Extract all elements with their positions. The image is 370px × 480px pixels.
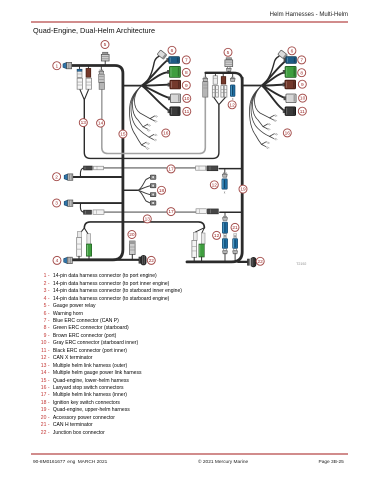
wire: relay stem (upper)	[228, 71, 230, 73]
callout 6	[168, 46, 176, 54]
lanyard fork 1 (16 upper)	[270, 115, 278, 122]
B label block col1	[224, 234, 227, 238]
wire: lower-helm bottom bus to junction box	[112, 259, 140, 261]
callout 11	[183, 107, 191, 115]
bottom col1 claw bottom	[223, 249, 228, 254]
svg-text:6: 6	[171, 48, 174, 54]
wire: quad-engine lower-helm harness trunk (15)	[71, 66, 123, 260]
wire: stem brown connector	[87, 66, 89, 69]
green link body (upper bottom)	[199, 244, 204, 257]
callout 2	[53, 173, 61, 181]
wire: multiple helm link harness inner (17) row 1	[104, 167, 195, 169]
terminator claw (upper col4)	[230, 77, 235, 82]
callout 8	[298, 69, 306, 77]
svg-text:14: 14	[98, 121, 104, 127]
inner link row1 left white connector	[94, 166, 104, 170]
svg-text:19: 19	[240, 187, 246, 193]
wire: stem col1 upper bus	[204, 73, 206, 78]
white link pair connector B (lower)	[86, 78, 92, 89]
H label block col2	[234, 234, 237, 238]
svg-text:21: 21	[232, 225, 238, 231]
mating CAN connector (bottom col1)	[222, 239, 227, 249]
callout 20	[128, 231, 136, 239]
gray gauge connector under claw (lower)	[99, 74, 105, 82]
wire: ignition key fan lead 1	[138, 177, 150, 190]
header rule	[31, 21, 348, 22]
warning horn connector (6 upper)	[278, 50, 288, 59]
callout 5	[101, 41, 109, 49]
wire: lower hub to blue ERC (7)	[142, 61, 167, 86]
wire: connector 2 to trunk	[72, 176, 123, 178]
svg-text:13: 13	[81, 120, 87, 126]
wire: pigtail from connector-2 wire to inner link row 1	[80, 168, 83, 177]
callout 14	[97, 119, 105, 127]
svg-text:7: 7	[185, 58, 188, 64]
wire: lower hub to black ERC (11)	[142, 86, 170, 112]
wire: stem claw connector	[100, 66, 102, 71]
callout 17	[167, 208, 175, 216]
callout 9	[182, 81, 190, 89]
brown accessory connector	[86, 68, 91, 77]
svg-text:x: x	[224, 190, 226, 194]
warning horn connector (6 lower)	[157, 50, 167, 59]
svg-text:4: 4	[56, 258, 59, 264]
gray ERC connector (10 lower, starboard inner)	[168, 94, 180, 103]
wire: lower lanyard stop switch lead 2	[133, 86, 144, 127]
footer texts	[33, 460, 65, 465]
ignition key switch connector 4 (18)	[150, 201, 156, 205]
wire: upper hub to warning horn (6)	[262, 56, 279, 85]
wire: upper-helm gauge bus	[206, 73, 243, 81]
svg-text:12: 12	[214, 233, 220, 239]
callout 15	[119, 130, 127, 138]
CAN X terminator (12, bottom)	[222, 222, 227, 233]
callout 7	[182, 56, 190, 64]
wire: stem to mid terminator	[224, 169, 226, 174]
svg-text:12: 12	[212, 182, 218, 188]
CAN H terminator (21)	[233, 239, 238, 249]
brown ERC connector (9 lower, port)	[168, 80, 181, 89]
footer rule	[31, 453, 348, 454]
ignition key switch connector 3 (18)	[150, 193, 156, 197]
gauge power relay (lower)	[101, 52, 109, 61]
inner link row2 right dark connector	[207, 209, 218, 214]
white striped connector (upper col2)	[213, 76, 217, 84]
14-pin data harness connector 3 (to starboard inner engine)	[64, 200, 73, 206]
legend	[0, 0, 370, 1]
callout 6	[288, 47, 296, 55]
callout 10	[183, 94, 191, 102]
wire: multiple helm link harness outer (13), helm bus to upper bus	[84, 100, 219, 159]
white link pair D2 (upper)	[224, 86, 227, 98]
white link pair D1 (upper)	[221, 86, 224, 98]
wire: lower lanyard stop switch lead 1	[135, 86, 151, 119]
ignition key switch connector 1 (18)	[150, 175, 156, 179]
wire: multiple helm link harness inner (17) row 2	[105, 211, 196, 213]
gauge power relay (upper)	[225, 58, 233, 67]
lanyard fork 1 (16 lower)	[150, 115, 158, 122]
wire: upper lanyard stop switch lead 2	[253, 86, 264, 127]
wire: 13 bottom right fork stems	[195, 228, 204, 233]
bottom col2 claw	[233, 249, 238, 254]
svg-text:8: 8	[185, 70, 188, 76]
svg-text:22: 22	[258, 259, 264, 265]
gray gauge-link connector (upper, feeds 14)	[203, 82, 208, 98]
svg-text:7: 7	[300, 58, 303, 64]
wire: upper lanyard stop switch lead 4	[250, 86, 262, 145]
gauge link claw (upper col1)	[203, 77, 208, 82]
wire: accessory stem	[131, 255, 133, 260]
wire: lower hub to warning horn (6)	[142, 56, 159, 85]
svg-text:10: 10	[300, 96, 306, 102]
wire: stems lower pair to bus	[79, 256, 89, 260]
svg-text:16: 16	[163, 131, 169, 137]
inner link row2 left white connector	[93, 210, 104, 214]
svg-text:13: 13	[145, 217, 151, 223]
inner link row1 right dark connector	[207, 166, 218, 171]
callout 16	[283, 129, 291, 137]
mini connector above green body (lower)	[87, 234, 91, 244]
svg-text:22: 22	[149, 258, 155, 264]
svg-text:T2192: T2192	[296, 262, 306, 266]
accessory power connector (20)	[130, 241, 136, 255]
svg-text:17: 17	[168, 209, 174, 215]
blue ERC connector (7 upper, CAN P)	[284, 57, 297, 64]
svg-text:3: 3	[55, 201, 58, 207]
wire: stem col4 upper bus	[232, 73, 234, 78]
14-pin data harness connector 1 (to port engine)	[63, 62, 72, 68]
wire: pigtail from connector-3 wire to inner link row 2	[80, 203, 83, 212]
white link body (lower bottom)	[77, 237, 82, 256]
svg-text:2: 2	[55, 174, 58, 180]
wire: stem fuse holder	[79, 66, 81, 70]
callout 5	[224, 48, 232, 56]
mini connector above green body (upper)	[201, 233, 205, 244]
page title	[33, 26, 155, 35]
callout 11	[298, 107, 306, 115]
lanyard fork 4 (16 upper)	[262, 142, 270, 149]
14-pin data harness connector 2 (to port inner engine)	[64, 174, 73, 180]
gray gauge-link connector (lower, feeds 14)	[99, 83, 104, 90]
wire: inner link row 2 stub to upper trunk	[220, 211, 242, 213]
callout 19	[239, 185, 247, 193]
svg-text:H: H	[234, 234, 236, 238]
svg-text:18: 18	[159, 188, 165, 194]
CAN X terminator (12, upper bus)	[230, 85, 235, 97]
wire: upper bottom stub to junction box	[238, 261, 248, 263]
svg-text:11: 11	[184, 109, 189, 115]
wire: lower lanyard stop switch lead 4	[130, 86, 142, 145]
wire: ignition key fan lead 3	[138, 190, 150, 194]
lanyard fork 2 (16 lower)	[143, 124, 151, 131]
wire: 13 bottom left fork stems	[80, 228, 88, 234]
mini connector above white body (lower)	[77, 232, 81, 238]
lanyard fork 3 (16 upper)	[270, 133, 278, 140]
wire: upper lanyard stop switch lead 3	[251, 86, 270, 137]
14-pin data harness connector 4 (to starboard engine)	[64, 257, 73, 263]
inner link row1 right white connector	[196, 166, 206, 170]
wire: upper hub to green ERC (8)	[262, 73, 285, 86]
inner link row2 right white connector	[196, 209, 206, 214]
callout 7	[298, 56, 306, 64]
white link pair C2 (upper)	[216, 86, 219, 98]
wire: lower hub to gray ERC (10)	[142, 86, 171, 99]
svg-text:9: 9	[185, 83, 188, 89]
wire: multiple helm link harness outer (13), bottom run	[84, 222, 204, 228]
wire: lower hub to brown ERC (9)	[142, 85, 170, 86]
callout 13	[79, 119, 87, 127]
header text	[0, 12, 348, 18]
bottom col1 claw top	[223, 216, 228, 221]
brown ERC connector (9 upper, port)	[283, 80, 296, 89]
mid terminator claw	[222, 173, 227, 178]
svg-text:17: 17	[168, 167, 174, 173]
white link body (upper bottom)	[192, 240, 197, 257]
lanyard fork 2 (16 upper)	[263, 123, 271, 130]
inner link row1 left dark connector	[84, 166, 93, 170]
wire: stem col2 to bottom bus	[234, 254, 236, 262]
svg-text:15: 15	[120, 132, 126, 138]
lanyard fork 3 (16 lower)	[149, 134, 157, 141]
black ERC connector (11 upper, port inner)	[283, 107, 296, 116]
wire: lower hub to green ERC (8)	[142, 72, 168, 85]
svg-text:8: 8	[300, 70, 303, 76]
svg-text:12: 12	[229, 102, 235, 108]
white link pair C1 (upper)	[212, 86, 215, 98]
brown connector (upper col3)	[221, 77, 226, 85]
wire: quad-engine upper-helm harness trunk (19)	[187, 78, 242, 262]
CAN X terminator (12, mid)	[222, 179, 227, 189]
wire: white pair stems converge to link 13 (lower)	[80, 89, 89, 100]
callout 22	[147, 256, 155, 264]
callout 12	[213, 231, 221, 239]
callout 9	[298, 80, 306, 88]
wire: ignition key fan lead 4	[138, 190, 150, 203]
svg-text:11: 11	[300, 109, 305, 115]
junction box connector (22 lower)	[139, 255, 146, 265]
white link pair connector A (lower)	[77, 78, 82, 89]
svg-text:5: 5	[227, 50, 230, 56]
junction box connector (22 upper)	[247, 257, 256, 267]
svg-text:6: 6	[291, 48, 294, 54]
wire: stem col1 to bottom bus	[224, 254, 226, 262]
wire: upper hub to black ERC (11)	[262, 86, 285, 112]
wire: relay stem (lower)	[104, 61, 106, 66]
callout 3	[53, 199, 61, 207]
callout 16	[162, 129, 170, 137]
svg-text:10: 10	[184, 96, 190, 102]
lanyard fork 4 (16 lower)	[142, 142, 150, 150]
gray ERC connector (10 upper, starboard inner)	[284, 94, 297, 103]
svg-text:16: 16	[285, 131, 291, 137]
wire: tee branch to lower hub	[123, 85, 142, 87]
ignition key switch connector 2 (18)	[150, 184, 156, 188]
wire: upper hub to gray ERC (10)	[262, 86, 286, 99]
wire: inner link row 1 stub to upper trunk	[219, 168, 242, 170]
wire: lower lanyard stop switch lead 3	[131, 86, 149, 138]
inner link row2 left dark connector	[84, 210, 92, 214]
callout 10	[299, 94, 307, 102]
wire: stem col2 upper bus	[214, 73, 216, 76]
wire: tee branch to upper hub	[242, 85, 262, 87]
callout 4	[53, 256, 61, 264]
wire: branch to ignition key switch fan (18)	[123, 189, 138, 191]
green ERC connector (8 upper, starboard)	[283, 66, 296, 77]
wire: multiple helm gauge power link harness (14), gray	[102, 89, 206, 153]
svg-text:B: B	[224, 234, 226, 238]
wire: stem row2-stub to bottom terminator col1	[224, 212, 226, 216]
callout 17	[167, 165, 175, 173]
callout 21	[231, 223, 239, 231]
callout 8	[182, 68, 190, 76]
wire: upper hub to brown ERC (9)	[262, 85, 285, 86]
wire: upper lanyard stop switch lead 1	[255, 86, 270, 118]
wire: stem col3 upper bus	[222, 73, 224, 77]
wire: stems upper pair to bus	[194, 257, 201, 262]
callout 13	[143, 215, 151, 223]
mini connector above white body (upper)	[193, 232, 197, 240]
blue ERC connector (7 lower, CAN P)	[166, 57, 179, 64]
relay claw (upper)	[226, 67, 231, 72]
callout 1	[53, 62, 61, 70]
svg-text:5: 5	[104, 42, 107, 48]
callout 12	[210, 181, 218, 189]
svg-text:20: 20	[129, 232, 135, 238]
callout 22	[256, 257, 264, 265]
callout 12	[228, 101, 236, 109]
wire: white pair stems converge to link 13 (upper)	[214, 97, 226, 105]
wire: ignition key fan lead 2	[138, 186, 150, 191]
svg-text:1: 1	[55, 63, 58, 69]
fuse holder connector (blue/white)	[77, 69, 82, 77]
black ERC connector (11 lower, port inner)	[168, 107, 180, 116]
green link body (lower bottom)	[86, 244, 91, 256]
svg-text:9: 9	[301, 82, 304, 88]
green ERC connector (8 lower, starboard)	[167, 66, 180, 77]
gauge power claw (lower)	[99, 70, 104, 75]
callout 18	[158, 186, 166, 194]
wire: upper hub to blue ERC (7)	[262, 61, 286, 86]
wire: connector 3 to trunk	[72, 202, 123, 204]
